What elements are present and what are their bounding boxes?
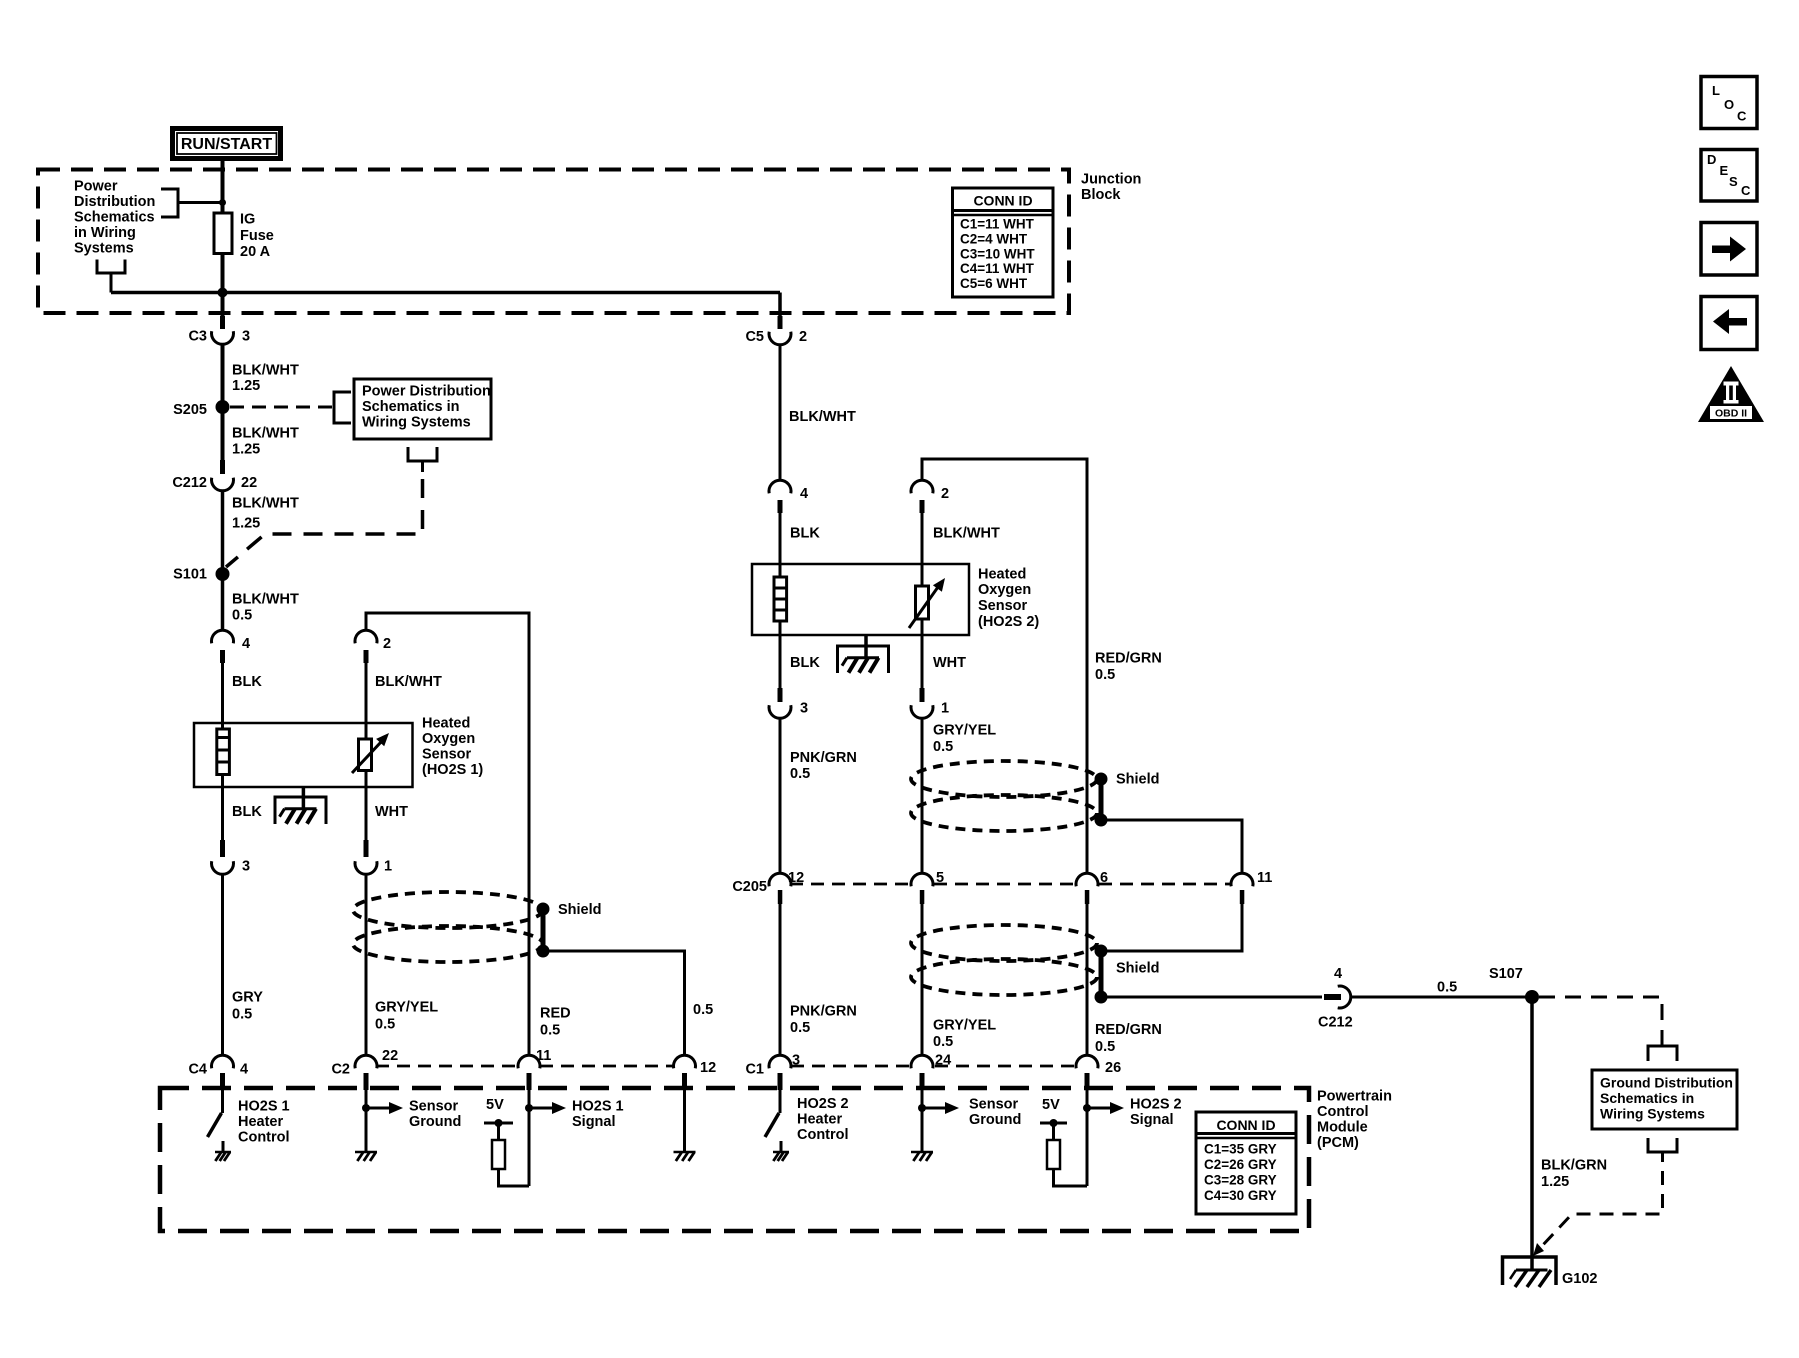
connector PCM C1 pin 3 bbox=[745, 1053, 800, 1091]
svg-text:BLK: BLK bbox=[232, 804, 262, 820]
svg-text:0.5: 0.5 bbox=[933, 739, 953, 755]
svg-text:0.5: 0.5 bbox=[790, 766, 810, 782]
label: IG Fuse 20 A bbox=[240, 212, 274, 260]
svg-text:C3=10 WHT: C3=10 WHT bbox=[960, 246, 1035, 261]
svg-text:Power Distribution: Power Distribution bbox=[362, 384, 491, 400]
svg-text:C1=35 GRY: C1=35 GRY bbox=[1204, 1142, 1277, 1157]
wire: bus horizontal to C5 branch bbox=[111, 293, 780, 319]
inline connector C205 pin 6 bbox=[1076, 870, 1108, 904]
svg-text:20 A: 20 A bbox=[240, 244, 271, 260]
svg-text:C4=30 GRY: C4=30 GRY bbox=[1204, 1188, 1277, 1203]
connector C212 pin 22 bbox=[172, 460, 257, 491]
svg-text:Oxygen: Oxygen bbox=[978, 582, 1031, 598]
svg-text:Heated: Heated bbox=[978, 567, 1026, 583]
svg-text:Ground Distribution: Ground Distribution bbox=[1600, 1075, 1733, 1091]
label Sensor Ground 2 bbox=[969, 1097, 1021, 1129]
heater element HO2S2 bbox=[774, 577, 787, 621]
svg-text:3: 3 bbox=[800, 701, 808, 717]
wire RED/GRN through shield region bbox=[1086, 772, 1089, 874]
svg-text:BLK: BLK bbox=[790, 655, 820, 671]
svg-text:Control: Control bbox=[238, 1130, 290, 1146]
svg-text:Fuse: Fuse bbox=[240, 228, 274, 244]
wire GRY 0.5 bbox=[223, 874, 264, 1056]
svg-text:Schematics in: Schematics in bbox=[1600, 1090, 1694, 1106]
reference box: Ground Distribution Schematics in Wiring Systems bbox=[1592, 1070, 1737, 1129]
connector HO2S2 pin 2 bbox=[911, 480, 949, 513]
svg-text:C3: C3 bbox=[188, 329, 207, 345]
ground (shield drain 1) bbox=[674, 1152, 696, 1161]
svg-text:(HO2S 2): (HO2S 2) bbox=[978, 614, 1039, 630]
dashed reference to G102 bbox=[1533, 1171, 1663, 1256]
ground G102 bbox=[1503, 1257, 1598, 1287]
svg-text:Control: Control bbox=[1317, 1104, 1369, 1120]
svg-text:0.5: 0.5 bbox=[232, 1007, 252, 1023]
switch: HO2S1 heater control driver bbox=[208, 1090, 224, 1152]
dashed reference to S101 bbox=[226, 479, 423, 567]
svg-text:12: 12 bbox=[700, 1060, 716, 1076]
svg-text:0.5: 0.5 bbox=[693, 1002, 713, 1018]
svg-text:L: L bbox=[1712, 83, 1720, 98]
svg-text:0.5: 0.5 bbox=[232, 608, 252, 624]
svg-text:11: 11 bbox=[1257, 870, 1272, 886]
connector PCM C1 pin 24 bbox=[911, 1053, 951, 1091]
heater element HO2S1 bbox=[217, 729, 230, 775]
svg-text:Schematics in: Schematics in bbox=[362, 399, 460, 415]
svg-text:22: 22 bbox=[382, 1048, 398, 1064]
node S205 bbox=[173, 400, 229, 418]
svg-text:C2=26 GRY: C2=26 GRY bbox=[1204, 1157, 1277, 1172]
svg-text:BLK/WHT: BLK/WHT bbox=[232, 592, 299, 608]
wire GRY/YEL 0.5 (HO2S1) bbox=[366, 874, 438, 1056]
Junction Block label bbox=[1081, 172, 1141, 204]
svg-text:C: C bbox=[1737, 109, 1747, 124]
wire BLK below heater 2 bbox=[780, 621, 820, 689]
shield ellipses HO2S1 bbox=[353, 892, 543, 962]
svg-text:Sensor: Sensor bbox=[422, 747, 472, 763]
svg-text:OBD II: OBD II bbox=[1715, 408, 1747, 420]
CONN ID table (PCM) bbox=[1196, 1112, 1296, 1214]
inline connector C205 pin 5 bbox=[911, 870, 944, 904]
svg-text:0.5: 0.5 bbox=[375, 1017, 395, 1033]
svg-text:Powertrain: Powertrain bbox=[1317, 1089, 1392, 1105]
shield drain HO2S2 upper bbox=[1095, 772, 1160, 827]
svg-text:Shield: Shield bbox=[1116, 772, 1160, 788]
svg-text:0.5: 0.5 bbox=[1095, 1039, 1115, 1055]
svg-text:C4: C4 bbox=[188, 1062, 207, 1078]
connector PCM C2 pin 12 bbox=[674, 1055, 717, 1090]
svg-text:5V: 5V bbox=[1042, 1097, 1060, 1113]
svg-text:C4=11 WHT: C4=11 WHT bbox=[960, 261, 1035, 276]
wire shield upper to C205 pin 11 bbox=[1101, 820, 1242, 874]
sidebar OBD II icon bbox=[1698, 366, 1764, 422]
wire shield to PCM pin 12 bbox=[543, 951, 713, 1056]
ground (sensor ground 2) bbox=[911, 1152, 933, 1161]
svg-text:S205: S205 bbox=[173, 402, 207, 418]
wire C205 pin11 to shield lower bbox=[1101, 904, 1242, 951]
svg-text:BLK: BLK bbox=[232, 674, 262, 690]
svg-text:C3=28 GRY: C3=28 GRY bbox=[1204, 1173, 1277, 1188]
svg-text:4: 4 bbox=[1334, 966, 1342, 982]
svg-text:BLK/GRN: BLK/GRN bbox=[1541, 1158, 1607, 1174]
HO2S1 sensor box bbox=[194, 723, 413, 787]
svg-text:GRY/YEL: GRY/YEL bbox=[375, 1000, 438, 1016]
wire pin12 to ground bbox=[683, 1090, 686, 1152]
svg-text:0.5: 0.5 bbox=[790, 1020, 810, 1036]
svg-text:C2: C2 bbox=[331, 1062, 350, 1078]
svg-text:PNK/GRN: PNK/GRN bbox=[790, 1004, 857, 1020]
svg-text:Oxygen: Oxygen bbox=[422, 731, 475, 747]
svg-text:C1=11 WHT: C1=11 WHT bbox=[960, 217, 1035, 232]
HO2S2 sensor box bbox=[752, 564, 969, 635]
svg-text:WHT: WHT bbox=[375, 804, 408, 820]
svg-text:Ground: Ground bbox=[409, 1114, 461, 1130]
svg-text:Sensor: Sensor bbox=[978, 598, 1028, 614]
shield ellipses HO2S2 upper bbox=[911, 761, 1097, 831]
svg-text:HO2S 1: HO2S 1 bbox=[238, 1099, 290, 1115]
connector HO2S1 pin 4 bbox=[211, 630, 250, 663]
svg-text:(HO2S 1): (HO2S 1) bbox=[422, 762, 483, 778]
svg-text:C212: C212 bbox=[1318, 1015, 1353, 1031]
connector PCM C2 pin 11 bbox=[518, 1048, 551, 1090]
svg-text:CONN ID: CONN ID bbox=[973, 193, 1032, 209]
wire BLK/WHT 1.25 (C212 to S101) bbox=[223, 491, 299, 631]
svg-text:Heated: Heated bbox=[422, 716, 470, 732]
wire BLK to heater 2 bbox=[780, 513, 820, 577]
svg-text:RED/GRN: RED/GRN bbox=[1095, 651, 1162, 667]
svg-text:Junction: Junction bbox=[1081, 172, 1141, 188]
connector HO2S2 pin 4 bbox=[769, 480, 808, 513]
sidebar prev-page arrow icon bbox=[1701, 297, 1757, 350]
svg-text:Control: Control bbox=[797, 1127, 849, 1143]
connector C5 pin 2 bbox=[745, 316, 807, 345]
wire RED/GRN 0.5 upper bbox=[1095, 651, 1162, 684]
svg-text:C5: C5 bbox=[745, 329, 764, 345]
svg-text:3: 3 bbox=[242, 329, 250, 345]
wire GRY/YEL 0.5 lower (HO2S2) bbox=[922, 904, 996, 1056]
svg-text:RUN/START: RUN/START bbox=[181, 136, 272, 153]
ground (HO2S2 case) bbox=[838, 635, 889, 673]
svg-text:2: 2 bbox=[383, 636, 391, 652]
svg-text:BLK/WHT: BLK/WHT bbox=[375, 674, 442, 690]
ground (sensor ground 1) bbox=[355, 1152, 377, 1161]
connector C2 dashed body bbox=[376, 1065, 674, 1068]
svg-text:RED/GRN: RED/GRN bbox=[1095, 1022, 1162, 1038]
svg-text:4: 4 bbox=[800, 486, 808, 502]
connector HO2S1 pin 3 bbox=[212, 840, 251, 875]
svg-text:4: 4 bbox=[242, 636, 250, 652]
connector HO2S1 pin 1 bbox=[355, 840, 392, 875]
svg-text:BLK/WHT: BLK/WHT bbox=[232, 426, 299, 442]
svg-text:Module: Module bbox=[1317, 1120, 1368, 1136]
svg-text:Sensor: Sensor bbox=[409, 1099, 459, 1115]
wire PNK/GRN 0.5 upper bbox=[780, 718, 857, 874]
svg-text:Distribution: Distribution bbox=[74, 194, 155, 210]
label Heated Oxygen Sensor (HO2S 2) bbox=[978, 567, 1039, 631]
resistor (pull-up 1) bbox=[492, 1140, 505, 1169]
wire pin11 signal, HO2S1 signal arrow bbox=[525, 1090, 566, 1186]
wire BLK/WHT (pin2 to sensing element) bbox=[366, 663, 442, 723]
wire RED 0.5 bbox=[529, 905, 571, 1056]
svg-text:PNK/GRN: PNK/GRN bbox=[790, 750, 857, 766]
svg-text:1.25: 1.25 bbox=[232, 378, 260, 394]
svg-text:1.25: 1.25 bbox=[1541, 1174, 1569, 1190]
label Heated Oxygen Sensor (HO2S 1) bbox=[422, 716, 483, 779]
dashed reference from S205 bbox=[230, 392, 351, 423]
svg-text:0.5: 0.5 bbox=[1437, 980, 1457, 996]
svg-text:HO2S 2: HO2S 2 bbox=[1130, 1097, 1182, 1113]
svg-text:WHT: WHT bbox=[933, 655, 966, 671]
dashed reference S107 to Ground Distribution bbox=[1539, 997, 1677, 1061]
wire BLK/WHT 1.25 (S205 to C212) bbox=[232, 426, 299, 458]
wire BLK/WHT 1.25 (C3 to S205) bbox=[223, 344, 299, 460]
wire 0.5 to S107 bbox=[1351, 980, 1533, 998]
svg-text:G102: G102 bbox=[1562, 1271, 1597, 1287]
CONN ID table (junction block) bbox=[953, 188, 1054, 297]
svg-text:Heater: Heater bbox=[797, 1112, 842, 1128]
svg-text:O: O bbox=[1724, 97, 1734, 112]
wire PNK/GRN 0.5 lower bbox=[780, 904, 857, 1056]
connector C3 pin 3 bbox=[188, 316, 250, 345]
svg-text:S101: S101 bbox=[173, 567, 207, 583]
label HO2S 2 Heater Control bbox=[797, 1096, 849, 1143]
node S107 bbox=[1489, 966, 1539, 1004]
shield drain HO2S1 bbox=[537, 902, 602, 958]
node S101 bbox=[173, 567, 229, 583]
svg-text:4: 4 bbox=[240, 1062, 248, 1078]
svg-text:Wiring Systems: Wiring Systems bbox=[1600, 1106, 1705, 1122]
label HO2S 2 Signal bbox=[1130, 1097, 1182, 1129]
connector HO2S2 pin 1 bbox=[911, 688, 949, 718]
sensing element (variable) HO2S2 bbox=[909, 564, 945, 628]
svg-text:BLK/WHT: BLK/WHT bbox=[232, 363, 299, 379]
svg-text:Heater: Heater bbox=[238, 1114, 283, 1130]
connector PCM C2 pin 22 bbox=[331, 1048, 398, 1090]
wire: fuse to junction bbox=[221, 254, 225, 319]
wire WHT below sensing element 2 bbox=[922, 619, 966, 689]
svg-text:GRY: GRY bbox=[232, 990, 263, 1006]
wire pin24 to ground, sensor ground arrow 2 bbox=[918, 1090, 959, 1152]
svg-text:GRY/YEL: GRY/YEL bbox=[933, 1018, 996, 1034]
svg-text:RED: RED bbox=[540, 1006, 571, 1022]
reference pointer under box bbox=[408, 447, 437, 472]
label Powertrain Control Module (PCM) bbox=[1317, 1089, 1392, 1152]
connector HO2S2 pin 3 bbox=[769, 688, 808, 718]
svg-text:5V: 5V bbox=[486, 1097, 504, 1113]
5V pull-up left bbox=[484, 1097, 513, 1140]
signal wire top link HO2S1 bbox=[366, 613, 529, 905]
svg-text:2: 2 bbox=[799, 329, 807, 345]
sensing element (variable) HO2S1 bbox=[352, 723, 389, 773]
label HO2S 1 Heater Control bbox=[238, 1099, 290, 1146]
wire resistor to signal 1 bbox=[499, 1169, 530, 1186]
svg-text:0.5: 0.5 bbox=[1095, 667, 1115, 683]
wire GRY/YEL 0.5 upper (HO2S2) bbox=[922, 718, 996, 874]
svg-text:3: 3 bbox=[242, 859, 250, 875]
svg-text:BLK: BLK bbox=[790, 526, 820, 542]
reference pointer: Power Distribution Schematics (left) bbox=[161, 189, 223, 217]
svg-text:BLK/WHT: BLK/WHT bbox=[933, 526, 1000, 542]
wire BLK/WHT (C5 down) bbox=[780, 345, 856, 481]
svg-text:C205: C205 bbox=[732, 879, 767, 895]
svg-text:0.5: 0.5 bbox=[540, 1023, 560, 1039]
svg-text:Block: Block bbox=[1081, 187, 1121, 203]
svg-text:IG: IG bbox=[240, 212, 255, 228]
wire: RUN/START to fuse bbox=[221, 158, 225, 213]
wire resistor to signal 2 bbox=[1054, 1169, 1088, 1186]
connector PCM C4 pin 4 bbox=[188, 1055, 248, 1090]
sidebar next-page arrow icon bbox=[1701, 223, 1757, 276]
svg-text:(PCM): (PCM) bbox=[1317, 1135, 1359, 1151]
wire pin22 to ground, sensor ground arrow bbox=[362, 1090, 403, 1152]
svg-text:22: 22 bbox=[241, 475, 257, 491]
svg-text:2: 2 bbox=[941, 486, 949, 502]
signal wire top link HO2S2 bbox=[922, 459, 1087, 772]
svg-text:1: 1 bbox=[384, 859, 392, 875]
shield drain HO2S2 lower bbox=[1095, 945, 1160, 1004]
svg-text:BLK/WHT: BLK/WHT bbox=[232, 496, 299, 512]
wire pin26 signal, HO2S2 signal arrow bbox=[1083, 1090, 1124, 1186]
svg-text:Shield: Shield bbox=[1116, 961, 1160, 977]
label Sensor Ground bbox=[409, 1099, 461, 1131]
wire WHT below sensing element bbox=[366, 769, 408, 840]
svg-text:26: 26 bbox=[1105, 1060, 1121, 1076]
wire BLK/WHT 0.5 (S101 down) bbox=[232, 592, 299, 624]
svg-text:Shield: Shield bbox=[558, 902, 602, 918]
svg-text:0.5: 0.5 bbox=[933, 1034, 953, 1050]
svg-text:Power: Power bbox=[74, 179, 118, 195]
reference pointer under Systems text bbox=[97, 260, 125, 293]
svg-text:1.25: 1.25 bbox=[232, 442, 260, 458]
svg-text:C1: C1 bbox=[745, 1062, 764, 1078]
svg-text:11: 11 bbox=[536, 1048, 551, 1064]
reference box: Power Distribution Schematics in Wiring Systems bbox=[354, 379, 491, 439]
wire BLK/WHT (pin2 to sensing element 2) bbox=[922, 513, 1000, 564]
wire BLK/GRN 1.25 to G102 bbox=[1532, 997, 1607, 1270]
svg-text:1.25: 1.25 bbox=[232, 516, 260, 532]
svg-text:Signal: Signal bbox=[572, 1114, 616, 1130]
svg-text:C212: C212 bbox=[172, 475, 207, 491]
svg-text:S107: S107 bbox=[1489, 966, 1523, 982]
5V pull-up right bbox=[1040, 1097, 1067, 1140]
RUN/START power source box bbox=[173, 129, 281, 159]
fuse IG 20A bbox=[214, 213, 232, 254]
wire shield lower to C212 pin 4 bbox=[1101, 996, 1322, 999]
svg-text:Wiring Systems: Wiring Systems bbox=[362, 415, 471, 431]
wire BLK below heater bbox=[223, 774, 263, 840]
connector C205 dashed body bbox=[790, 883, 1230, 886]
svg-text:1: 1 bbox=[941, 701, 949, 717]
node: bus junction bbox=[218, 288, 228, 298]
node: fuse top junction bbox=[219, 199, 226, 206]
ground (switch 1) bbox=[215, 1152, 231, 1161]
svg-text:HO2S 2: HO2S 2 bbox=[797, 1096, 849, 1112]
shield ellipses HO2S2 lower bbox=[911, 925, 1097, 995]
svg-text:HO2S 1: HO2S 1 bbox=[572, 1099, 624, 1115]
PCM dashed box bbox=[160, 1088, 1309, 1231]
svg-text:C5=6 WHT: C5=6 WHT bbox=[960, 276, 1028, 291]
svg-text:S: S bbox=[1729, 174, 1738, 189]
label HO2S 1 Signal bbox=[572, 1099, 624, 1131]
resistor (pull-up 2) bbox=[1047, 1140, 1060, 1169]
sidebar LOC icon bbox=[1701, 77, 1757, 129]
junction block dashed box bbox=[38, 170, 1069, 314]
ground (HO2S1 case) bbox=[275, 787, 326, 824]
svg-text:E: E bbox=[1720, 163, 1729, 178]
svg-text:Systems: Systems bbox=[74, 241, 134, 257]
connector C1 dashed body bbox=[791, 1065, 1074, 1068]
wire RED/GRN 0.5 lower bbox=[1087, 904, 1162, 1056]
svg-text:in Wiring: in Wiring bbox=[74, 225, 136, 241]
svg-text:CONN ID: CONN ID bbox=[1216, 1117, 1275, 1133]
svg-text:C: C bbox=[1741, 183, 1751, 198]
sidebar DESC icon bbox=[1701, 150, 1757, 202]
label: Power Distribution Schematics in Wiring Systems (left text) bbox=[74, 179, 155, 257]
wire BLK to heater bbox=[223, 663, 263, 730]
svg-text:D: D bbox=[1707, 152, 1716, 167]
svg-text:Schematics: Schematics bbox=[74, 210, 155, 226]
connector C212 pin 4 (right) bbox=[1318, 966, 1353, 1031]
svg-text:Ground: Ground bbox=[969, 1112, 1021, 1128]
switch: HO2S2 heater control driver bbox=[765, 1090, 781, 1152]
inline connector C205 pin 12 bbox=[732, 870, 804, 904]
reference pointer under GD box bbox=[1648, 1138, 1677, 1162]
svg-text:GRY/YEL: GRY/YEL bbox=[933, 723, 996, 739]
svg-text:Signal: Signal bbox=[1130, 1112, 1174, 1128]
svg-text:C2=4 WHT: C2=4 WHT bbox=[960, 231, 1028, 246]
svg-text:Sensor: Sensor bbox=[969, 1097, 1019, 1113]
connector PCM C1 pin 26 bbox=[1076, 1055, 1121, 1090]
inline connector C205 pin 11 bbox=[1231, 870, 1272, 904]
ground (switch 2) bbox=[773, 1152, 789, 1161]
connector HO2S1 pin 2 bbox=[355, 630, 391, 663]
svg-text:BLK/WHT: BLK/WHT bbox=[789, 409, 856, 425]
